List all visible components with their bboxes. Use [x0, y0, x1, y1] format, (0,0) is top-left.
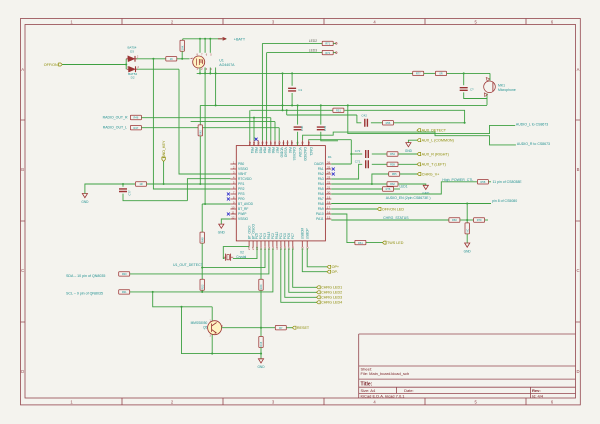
- title block: [359, 334, 576, 398]
- svg-text:PR1: PR1: [238, 182, 245, 186]
- wire R58 out: [489, 181, 492, 183]
- wire R48 to U1_OUT row: [201, 243, 203, 268]
- wire U1 drain 3 from +BATT: [209, 39, 211, 53]
- svg-text:R46: R46: [134, 116, 139, 120]
- junction diode anodes: [125, 63, 127, 65]
- svg-text:R24: R24: [259, 284, 263, 289]
- junction source rail 1: [199, 72, 201, 74]
- svg-text:C41: C41: [323, 125, 327, 131]
- svg-text:AUX_L (COMMON): AUX_L (COMMON): [422, 139, 454, 143]
- wire RADIO_OUT_L row: [141, 127, 279, 129]
- svg-text:R61: R61: [358, 241, 363, 245]
- wire source pin2 down to BT_AVDD row: [204, 68, 206, 205]
- wire PC3 to SDA: [130, 248, 269, 274]
- junction U1_OUT_DETECT: [201, 267, 203, 269]
- svg-text:BT_AVDD: BT_AVDD: [238, 202, 254, 206]
- wire +BATT rail: [183, 38, 227, 40]
- resistor R30: [119, 272, 130, 276]
- svg-text:10: 10: [231, 205, 235, 209]
- svg-text:26: 26: [327, 160, 331, 164]
- resistor R55: [389, 172, 400, 176]
- svg-text:RADIO_OUT_R: RADIO_OUT_R: [103, 115, 128, 119]
- svg-text:R62: R62: [390, 182, 395, 186]
- wire C77 bottom run: [123, 194, 187, 201]
- wire PC4 to U1_OUT row: [202, 248, 265, 267]
- svg-text:R56: R56: [386, 121, 391, 125]
- svg-text:CHRG_V+: CHRG_V+: [422, 172, 440, 176]
- hier label GND_KEY: [162, 140, 166, 161]
- junction +BATT rail 3: [209, 38, 211, 40]
- svg-text:Size: A4: Size: A4: [361, 388, 376, 393]
- junction rail B at 286.7: [286, 109, 288, 111]
- svg-text:OFF/ON LED: OFF/ON LED: [382, 207, 404, 211]
- svg-text:PR2: PR2: [238, 187, 245, 191]
- wire PA10 to R61: [331, 214, 355, 243]
- resistor R59: [387, 162, 398, 166]
- ground R62: [422, 185, 430, 195]
- svg-text:PR3: PR3: [238, 192, 245, 196]
- wire PA6 to R58: [331, 182, 477, 194]
- wire R80 to mic: [447, 72, 490, 74]
- pin mark LED2: [336, 43, 338, 45]
- wire C1 bottom stem: [291, 93, 293, 105]
- svg-text:C72: C72: [355, 149, 361, 153]
- wire D3 cathode to gate resistor: [137, 58, 166, 60]
- junction source rail 2: [204, 72, 206, 74]
- no-connect PWIP: [227, 213, 230, 216]
- wire DACR row: [331, 163, 351, 165]
- no-connect PR3: [227, 193, 230, 196]
- svg-text:OP+: OP+: [332, 265, 339, 269]
- svg-text:C71: C71: [355, 159, 361, 163]
- resistor R71: [322, 41, 333, 45]
- svg-text:DACR: DACR: [314, 162, 324, 166]
- svg-text:VSSIO: VSSIO: [238, 167, 249, 171]
- wire C1 top stem: [291, 73, 293, 85]
- wire t5 vertical to LED3 row: [266, 53, 268, 141]
- svg-text:AUDIO_L to CS8673: AUDIO_L to CS8673: [516, 123, 548, 127]
- wire GND up to PR1 rail: [85, 184, 135, 194]
- wire diode anode vertical: [125, 59, 127, 69]
- svg-text:R51: R51: [336, 109, 341, 113]
- svg-text:23: 23: [327, 175, 331, 179]
- power arrow +BATT: [218, 37, 226, 40]
- wire PC5 long vertical upper: [260, 248, 262, 279]
- svg-text:39: 39: [307, 141, 311, 145]
- resistor R61: [355, 240, 366, 244]
- svg-text:PC7: PC7: [291, 233, 295, 239]
- svg-text:25: 25: [327, 165, 331, 169]
- svg-text:R52: R52: [200, 284, 204, 289]
- svg-text:Q5: Q5: [203, 326, 207, 330]
- wire C40 bottom stem to pin: [297, 132, 299, 146]
- svg-text:KiCad E.D.A. kicad 7.0.1: KiCad E.D.A. kicad 7.0.1: [361, 393, 406, 398]
- IC top/bottom pin names and numbers: [247, 141, 313, 250]
- svg-text:OP-: OP-: [332, 270, 339, 274]
- capacitor C72: [366, 150, 369, 158]
- wire R45 top stem: [199, 105, 201, 125]
- svg-text:NC: NC: [465, 229, 469, 233]
- svg-text:PA1: PA1: [318, 167, 324, 171]
- svg-text:GND: GND: [218, 230, 226, 234]
- wire BT_AVDD vertical upper: [201, 204, 203, 232]
- svg-text:R55: R55: [392, 172, 397, 176]
- junction Q5 collector row: [260, 327, 262, 329]
- wire crystal right to PC5 pin: [233, 247, 257, 259]
- wire below U1_OUT to R52: [201, 268, 203, 280]
- microphone MK1: [484, 78, 496, 97]
- wire R43 to PR1: [147, 183, 231, 185]
- junction x215 rail A: [215, 104, 217, 106]
- resistor R24: [259, 279, 263, 290]
- wire C41 bottom run: [321, 132, 338, 141]
- svg-text:SCL – 9 pin of QN8035: SCL – 9 pin of QN8035: [66, 292, 103, 296]
- svg-text:CHRG LED1: CHRG LED1: [321, 286, 342, 290]
- svg-text:DACVDD: DACVDD: [303, 147, 307, 161]
- svg-text:VSSIO: VSSIO: [238, 217, 249, 221]
- svg-text:B: B: [577, 167, 580, 172]
- svg-text:VDDIO: VDDIO: [279, 147, 283, 158]
- svg-text:R71: R71: [325, 42, 330, 46]
- junction R45 PR1 rail: [199, 183, 201, 185]
- svg-text:MK1: MK1: [498, 84, 505, 88]
- svg-text:C77: C77: [127, 190, 131, 196]
- svg-text:CHRG_STATUS: CHRG_STATUS: [383, 216, 409, 220]
- capacitor C77: [119, 189, 127, 192]
- wire U1 source 1 to rail: [199, 68, 201, 74]
- wire R45 bottom to PR1 rail: [199, 136, 201, 184]
- svg-text:PB2: PB2: [254, 147, 258, 153]
- svg-text:LED3: LED3: [309, 48, 317, 52]
- resistor R48: [200, 232, 204, 243]
- junction Q5 emitter rail: [211, 353, 213, 355]
- svg-text:VCOM: VCOM: [298, 147, 302, 157]
- svg-text:VBHT: VBHT: [238, 172, 247, 176]
- svg-text:R79: R79: [477, 218, 482, 222]
- svg-text:DACL: DACL: [309, 147, 313, 156]
- wire PA13 to SCL: [130, 248, 273, 292]
- hier label AUX_L COMMON: [417, 139, 454, 143]
- wire D2 row down to VBHT: [179, 69, 230, 174]
- wire t1 pin to rail B: [249, 110, 251, 140]
- svg-text:PWIP: PWIP: [238, 212, 247, 216]
- svg-text:AO4407A: AO4407A: [219, 63, 235, 67]
- svg-text:CHRG LED4: CHRG LED4: [321, 301, 342, 305]
- svg-text:11 pin of CS8038E: 11 pin of CS8038E: [493, 180, 523, 184]
- resistor R72: [322, 50, 333, 54]
- hier label CHRG LED4: [317, 301, 343, 305]
- diode D3: [126, 56, 137, 62]
- svg-text:GND: GND: [464, 249, 472, 253]
- svg-text:15: 15: [327, 215, 331, 219]
- resistor R52: [200, 279, 204, 290]
- crystal X2: [223, 254, 233, 261]
- resistor R60: [449, 218, 460, 222]
- wire source rail down to rail A: [215, 73, 217, 105]
- wire R51 out to C42 row: [344, 110, 464, 123]
- transistor U1 AO4407A: [190, 56, 205, 68]
- hier label OP-: [327, 270, 339, 274]
- junction R49 gate: [181, 58, 183, 60]
- wire crystal left to BT_OSCI: [223, 247, 249, 259]
- junction AUX_DETECT rail A: [347, 104, 349, 106]
- svg-text:AUX_R (RIGHT): AUX_R (RIGHT): [422, 152, 449, 156]
- junction BT_AVDD row: [204, 203, 206, 205]
- svg-text:Rev:: Rev:: [532, 388, 541, 393]
- svg-text:MMSS8050: MMSS8050: [191, 321, 208, 325]
- svg-text:1R: 1R: [139, 182, 142, 186]
- capacitor C3: [460, 88, 468, 91]
- junction t2 on radio R row: [253, 117, 255, 119]
- svg-text:C?: C?: [470, 88, 474, 92]
- hier label RESET: [292, 326, 310, 330]
- wire LED3 row: [267, 52, 323, 54]
- junction source rail 4: [215, 72, 217, 74]
- hier label CHRG LED3: [317, 296, 343, 300]
- wire R56 out: [394, 122, 465, 124]
- svg-text:GND: GND: [257, 365, 265, 369]
- wire PA9 to OFF/ON LED: [331, 208, 377, 210]
- wire R52 to SCL row: [201, 290, 203, 292]
- junction C72 row: [350, 153, 352, 155]
- svg-text:D: D: [21, 369, 24, 374]
- wire D2 cathode row: [137, 68, 179, 70]
- svg-text:Title:: Title:: [361, 381, 373, 387]
- ground VSSIO: [218, 224, 226, 234]
- diode D2: [127, 66, 138, 72]
- svg-text:PA2: PA2: [318, 172, 324, 176]
- junction source rail 3: [209, 72, 211, 74]
- junction x282 rail A: [281, 104, 283, 106]
- svg-text:R60: R60: [452, 218, 457, 222]
- resistor R44 gate: [166, 57, 177, 61]
- svg-text:LED1: LED1: [400, 185, 408, 189]
- wire x282 source rail to rail B: [282, 73, 284, 110]
- wire OFF/ON to diodes: [62, 64, 126, 66]
- wire U1 source 2 to rail: [204, 68, 206, 74]
- svg-text:CHRG LED2: CHRG LED2: [321, 291, 342, 295]
- junction +BATT rail 1: [199, 38, 201, 40]
- svg-text:VSSIO: VSSIO: [284, 147, 288, 157]
- capacitor C1: [288, 88, 296, 91]
- wire C77 top stem: [122, 184, 124, 187]
- svg-text:R48: R48: [200, 237, 204, 242]
- svg-text:R7: R7: [279, 326, 283, 330]
- resistor R79: [474, 218, 485, 222]
- svg-text:PB1: PB1: [250, 147, 254, 153]
- hier label OP+: [327, 265, 339, 269]
- capacitor C42: [365, 119, 368, 127]
- svg-text:C: C: [576, 268, 579, 273]
- resistor R80: [436, 71, 447, 75]
- svg-text:A: A: [21, 67, 24, 72]
- svg-text:GND_KEY: GND_KEY: [162, 140, 166, 158]
- svg-text:U1_OUT_DETECT: U1_OUT_DETECT: [173, 263, 204, 267]
- wire R61 to TWS LED: [366, 242, 382, 244]
- svg-text:C42: C42: [361, 114, 367, 118]
- svg-text:PR0: PR0: [238, 197, 245, 201]
- svg-text:22: 22: [327, 180, 331, 184]
- svg-text:TWS LED: TWS LED: [387, 241, 404, 245]
- svg-text:PB3: PB3: [258, 147, 262, 153]
- junction x282 source rail: [281, 72, 283, 74]
- wire junction down to R81: [466, 220, 468, 223]
- svg-text:RADIO_OUT_L: RADIO_OUT_L: [103, 126, 127, 130]
- wire DACR to C72 vertical: [350, 140, 352, 164]
- hier label CHRG LED2: [317, 291, 343, 295]
- transistor Q5 MMSS8050: [208, 321, 222, 335]
- wire USBDP to OP+: [307, 248, 327, 267]
- wire U1 drain 1 from +BATT: [199, 39, 201, 53]
- svg-text:PA3: PA3: [318, 177, 324, 181]
- svg-text:PA10: PA10: [316, 212, 324, 216]
- wire left vertical to bottom rail: [182, 307, 262, 354]
- svg-text:RTCVDD: RTCVDD: [238, 177, 252, 181]
- svg-text:AUDIO_R to CS8673: AUDIO_R to CS8673: [517, 142, 550, 146]
- svg-text:pin 8 of CS5080: pin 8 of CS5080: [492, 199, 517, 203]
- resistor R16: [259, 337, 263, 348]
- wire Q5 collector to R7: [222, 327, 276, 329]
- svg-text:File: Main_board.kicad_sch: File: Main_board.kicad_sch: [361, 371, 410, 376]
- resistor R56: [383, 121, 394, 125]
- svg-text:PB4: PB4: [263, 147, 267, 153]
- svg-text:C40: C40: [300, 125, 304, 131]
- wire U1 drain 2 from +BATT: [204, 39, 206, 53]
- wire AUDIO_R feeder wireA: [303, 132, 516, 145]
- hier label OFF/ON: [44, 63, 63, 67]
- wire top pin t2 rise: [253, 118, 255, 141]
- svg-text:Date:: Date:: [404, 388, 414, 393]
- wire rail C: [287, 114, 357, 116]
- svg-text:R76: R76: [386, 187, 391, 191]
- svg-text:BT_RF: BT_RF: [238, 207, 248, 211]
- wire mic top drop: [489, 73, 491, 80]
- wire top pin t7 rise: [274, 122, 276, 141]
- ground AUX_L: [405, 143, 413, 153]
- wire U1 source 3 to rail: [209, 68, 211, 74]
- svg-text:D3: D3: [130, 49, 134, 53]
- wire USBDM to OP-: [302, 248, 327, 272]
- junction SCL drop: [152, 291, 154, 293]
- svg-text:LED2: LED2: [309, 39, 317, 43]
- wire rail B: [251, 109, 333, 111]
- no-connect PA2: [332, 173, 335, 176]
- wire PC1 to CHRG LED2: [289, 248, 317, 292]
- wire R76 out: [394, 188, 400, 190]
- wire row L2: [191, 121, 275, 123]
- wire +BATT to R49 top: [182, 39, 184, 41]
- wire R16 to rail: [260, 348, 262, 359]
- svg-text:PA5: PA5: [318, 187, 324, 191]
- wire rail C down to C42: [357, 115, 361, 123]
- wire R81 to GND: [466, 234, 468, 243]
- pin mark LED3: [336, 52, 338, 54]
- svg-text:B: B: [21, 167, 24, 172]
- svg-text:12: 12: [231, 215, 235, 219]
- svg-text:R59: R59: [390, 163, 395, 167]
- svg-text:PB5: PB5: [267, 147, 271, 153]
- svg-text:PA9: PA9: [318, 207, 324, 211]
- svg-text:1K: 1K: [170, 57, 173, 61]
- wire top pin t6 rise: [270, 118, 272, 141]
- U1 bottom pin numbers 1 2 3: [197, 68, 213, 71]
- hier label CHRG_V+: [417, 172, 439, 176]
- svg-text:16: 16: [327, 210, 331, 214]
- wire top pin t8 rise: [278, 128, 280, 141]
- wire rail B to rail C drop: [286, 110, 288, 115]
- IC top/bottom pin stubs: [249, 140, 309, 246]
- junction R51 joins C42 row: [464, 122, 466, 124]
- svg-text:24: 24: [327, 170, 331, 174]
- wire C71 to R59: [372, 163, 387, 165]
- svg-text:19: 19: [327, 195, 331, 199]
- junction C77 top: [122, 183, 124, 185]
- svg-text:21: 21: [327, 185, 331, 189]
- wire R62 to GND: [398, 184, 426, 185]
- capacitor C71: [366, 160, 369, 168]
- svg-text:C1: C1: [298, 88, 302, 92]
- wire rail A: [200, 104, 487, 106]
- ground C77: [81, 194, 89, 204]
- junction PA4 branch: [371, 183, 373, 185]
- wire C3 top stem: [463, 73, 465, 85]
- capacitor C41: [317, 127, 325, 130]
- svg-text:R58: R58: [481, 180, 486, 184]
- svg-text:PB7: PB7: [275, 147, 279, 153]
- wire R24 down to Q5 row: [260, 290, 262, 327]
- svg-text:CHRG LED3: CHRG LED3: [321, 296, 342, 300]
- svg-text:USBDM: USBDM: [301, 227, 305, 239]
- junction GND_KEY PR1 rail: [163, 183, 165, 185]
- wire PA4 to R62: [331, 183, 387, 185]
- wire AUX_DETECT run: [348, 105, 515, 133]
- svg-text:GND: GND: [81, 200, 89, 204]
- wire PC0 to CHRG LED1: [293, 248, 317, 287]
- junction SCL R52: [201, 291, 203, 293]
- wire C72 to R54: [372, 153, 387, 155]
- svg-text:Id: 4/4: Id: 4/4: [532, 393, 544, 398]
- svg-text:R77: R77: [416, 72, 421, 76]
- svg-text:RESET: RESET: [297, 326, 310, 330]
- wire R79 stub: [485, 219, 488, 221]
- svg-text:40: 40: [301, 141, 305, 145]
- svg-text:OFF/ON: OFF/ON: [44, 63, 58, 67]
- wire C72 left: [351, 153, 362, 155]
- no-connect PR0: [227, 198, 230, 201]
- no-connect top pin: [255, 138, 258, 141]
- wire U1 source 4 to rail: [215, 68, 217, 74]
- svg-text:D: D: [576, 369, 579, 374]
- svg-text:R30: R30: [122, 272, 127, 276]
- resistor R58: [477, 180, 488, 184]
- wire R72 stub: [333, 52, 336, 54]
- svg-text:R31: R31: [122, 290, 127, 294]
- wire LED2 row: [262, 42, 322, 44]
- wire RTCVDD feed: [187, 179, 230, 201]
- wire t4 vertical to LED2 row: [261, 43, 263, 140]
- junction PA8 row: [466, 202, 468, 204]
- svg-text:USBDP: USBDP: [305, 228, 309, 239]
- junction gate row: [152, 58, 154, 60]
- svg-text:SDA – 10 pin of QN8035: SDA – 10 pin of QN8035: [66, 274, 105, 278]
- ground CHRG divider: [464, 243, 472, 253]
- wire PA5 to R76: [331, 188, 382, 190]
- junction x282 rail B: [281, 109, 283, 111]
- svg-text:D2: D2: [131, 76, 135, 80]
- hier label TWS LED: [382, 241, 403, 245]
- svg-text:AUDIO_EN (2pin CS8673E ): AUDIO_EN (2pin CS8673E ): [386, 196, 431, 200]
- wire PA8 run: [331, 203, 491, 205]
